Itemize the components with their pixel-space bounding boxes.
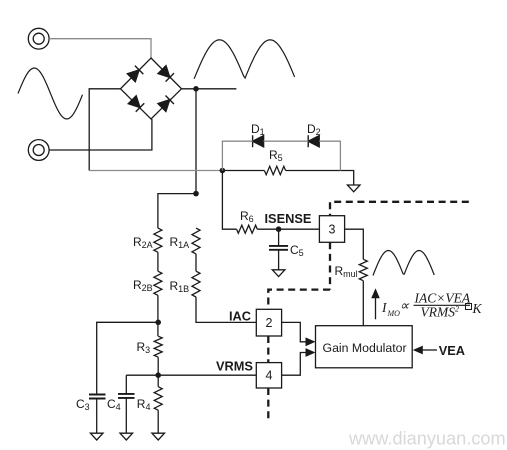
terminal J1 (top input) [28,28,49,49]
diode D2 [308,135,319,147]
wire pin2 to gain modulator [282,322,306,341]
resistor R4 [154,387,162,411]
ground (C3) [90,433,103,440]
wire R6 to ISENSE pin [257,228,319,230]
resistor R1A [192,228,200,254]
wire VRMS node to C4 and pin 4 [126,374,256,376]
resistor R2B [154,271,162,295]
wire pin3 to Rmul [345,229,364,259]
rectified waveform symbol [194,40,295,79]
wire J1 to bridge top vertex [49,39,151,58]
wire R1A to R1B [195,254,197,271]
bridge diode top-right [158,65,174,81]
svg-text:VRMS2: VRMS2 [421,305,460,320]
svg-text:4: 4 [266,369,273,383]
node dot return rail / R6 [220,168,226,174]
pin box 2 IAC [256,309,281,336]
svg-text:www.dianyuan.com: www.dianyuan.com [348,429,506,449]
resistor R6 [237,225,258,233]
node dot ISENSE/C5 [276,226,282,232]
pin box 3 ISENSE [319,216,344,243]
resistor Rmul [359,259,367,280]
IMO current arrow [375,297,377,320]
formula IMO equation [381,291,483,320]
svg-text:∝: ∝ [400,298,410,313]
svg-text:IAC×VEA: IAC×VEA [414,291,471,306]
bridge diode bottom-left [128,95,144,111]
node dot R2B/R3/C3 [155,320,161,326]
resistor R2A [154,228,162,252]
wire R1B to IAC pin 2 [196,297,256,322]
wire tap to R2A [158,194,196,229]
bridge diode top-left [127,66,143,82]
bridge rectifier BR1 diamond [121,58,182,119]
capacitor C3 [89,395,106,434]
resistor R3 [154,336,162,357]
svg-text:MO: MO [387,309,401,318]
terminal J2 (bottom input) [28,140,49,161]
arrow into gain modulator (from pin4) [306,348,316,357]
wire R5 to ground [286,171,354,186]
wire R3 to VRMS node [157,357,159,387]
svg-text:IAC: IAC [229,309,251,324]
wire node to C3 [97,322,159,394]
svg-text:K: K [472,301,483,316]
ground (C5) [272,270,285,277]
ground (after R5) [347,185,360,192]
wire Rmul to gain modulator [362,281,364,326]
gain modulator block [316,326,413,368]
wire R4 to ground [157,410,159,433]
capacitor C5 [269,229,288,270]
wire R2A to R2B [157,252,159,271]
Rmul waveform symbol [373,251,434,276]
node dot VRMS [155,372,161,378]
wire bridge left vertex down to return rail [89,89,120,171]
svg-text:ISENSE: ISENSE [265,211,312,226]
pin box 4 VRMS [256,363,281,388]
arrow into gain modulator (from pin2) [306,337,316,346]
resistor R1B [192,271,200,297]
wire node to R6 [222,171,236,230]
wire R2B to node [157,295,159,336]
wire rectified output rail from bridge right vertex [182,88,237,90]
svg-text:VRMS: VRMS [216,359,253,374]
svg-text:2: 2 [266,316,273,330]
svg-text:3: 3 [329,223,336,237]
capacitor C4 [118,375,135,433]
return rail wire to R5 [222,170,264,172]
wire pin4 to gain modulator [282,353,306,376]
ground (R4) [152,433,165,440]
node dot R1A/R2A tap [193,191,199,197]
resistor R5 [264,166,285,174]
wire rectified bus down to R1A chain [195,89,197,194]
arrow VEA into gain modulator [413,346,423,355]
wire J2 to bridge bottom vertex [49,119,152,150]
node dot rectified bus [193,86,199,92]
ground (C4) [120,433,133,440]
svg-text:Gain Modulator: Gain Modulator [323,341,407,355]
VEA input wire [423,349,438,351]
diode D1 [253,135,264,147]
IC boundary dashed outline [268,202,469,422]
bridge diode bottom-right [158,95,174,111]
AC sine waveform symbol [18,68,83,119]
wire D1 D2 branch (gray) [222,141,252,170]
return rail wire (gray) [89,170,222,172]
svg-text:VEA: VEA [439,343,465,358]
